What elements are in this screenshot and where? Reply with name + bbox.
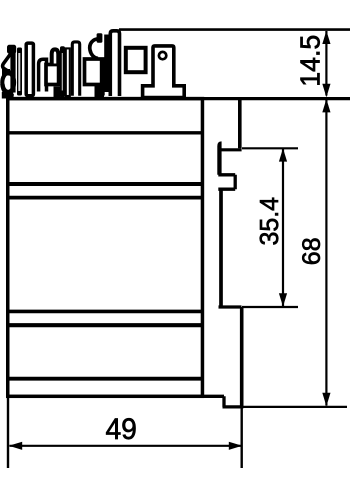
terminal 1: bottom sweep bbox=[2, 84, 13, 96]
DIN rail profile: claw tab bbox=[218, 175, 235, 189]
DIN rail profile: bottom foot step bbox=[201, 396, 243, 407]
terminal 6: dark double bar bbox=[60, 46, 65, 97]
DIN rail profile: upper right edge bbox=[238, 98, 242, 148]
svg-text:49: 49 bbox=[105, 413, 137, 446]
DIN rail profile: lower right edge bbox=[240, 307, 244, 407]
terminal 4: clamp block bbox=[46, 65, 59, 85]
terminal 12: bracket hole bbox=[159, 52, 166, 59]
extension line 49 left bbox=[7, 398, 9, 469]
dimension line 49 bbox=[10, 445, 242, 447]
terminal 1: dark bar bbox=[17, 48, 22, 96]
terminal 7a: narrow white bar bbox=[66, 48, 70, 96]
dimension line 14.5 bbox=[325, 31, 327, 96]
terminal 1: screw clamp head bbox=[7, 45, 16, 54]
terminal 9: tall bar bbox=[110, 31, 119, 96]
terminal 1: clamp lower ring bbox=[2, 73, 14, 92]
terminal 8: right edge strip bbox=[100, 58, 105, 96]
terminal 5: screw hump bbox=[52, 49, 59, 63]
terminal 9: dark strip left of tall bar bbox=[104, 35, 108, 93]
terminal 7b: white bar bbox=[72, 42, 79, 96]
terminal 8: foot bbox=[95, 84, 105, 97]
terminal 8: hook neck bbox=[97, 33, 103, 43]
body divider line 6 bbox=[8, 377, 203, 381]
terminal 11: small rectangle bbox=[126, 48, 146, 72]
body divider line 3 bbox=[8, 196, 203, 200]
dimension line 35.4 bbox=[282, 149, 284, 306]
terminal 3: block rounded top-left bbox=[39, 59, 47, 91]
relay body outline bbox=[8, 99, 203, 397]
terminal 12: mounting bracket bbox=[143, 46, 185, 98]
extension line 35.4 top bbox=[242, 147, 298, 149]
terminal 1: head stem bbox=[10, 52, 15, 93]
svg-text:35.4: 35.4 bbox=[254, 197, 284, 246]
body top line with extension to right bbox=[6, 97, 350, 100]
terminal 8: block bbox=[85, 59, 104, 85]
terminal 4: foot bbox=[54, 87, 61, 98]
DIN rail profile: lower left edge bbox=[219, 189, 223, 307]
terminal 8: wire hook bbox=[90, 39, 100, 59]
svg-text:68: 68 bbox=[298, 237, 326, 265]
svg-text:14.5: 14.5 bbox=[295, 35, 326, 87]
body divider line 2 bbox=[8, 182, 203, 186]
dimension line 68 bbox=[325, 100, 327, 406]
terminal 5: hump slope bbox=[59, 52, 63, 59]
terminal cover top line with extension (top of 14.5) bbox=[119, 28, 350, 31]
DIN rail profile: upper notch horizontal bbox=[221, 148, 242, 151]
DIN rail profile: lip hook bbox=[217, 141, 221, 174]
DIN rail profile: lower notch horizontal bbox=[219, 305, 242, 308]
extension line 68 bottom bbox=[243, 406, 347, 408]
terminal 1: clamp triangle loop bbox=[3, 54, 11, 73]
body divider line 1 bbox=[8, 131, 203, 134]
body divider line 4 bbox=[8, 310, 203, 314]
body divider line 5 bbox=[8, 323, 203, 327]
extension line 49 right bbox=[240, 407, 242, 468]
terminal 1: junction fill bbox=[2, 69, 10, 76]
terminal 2: vertical plate bbox=[26, 43, 33, 96]
extension line 35.4 bottom bbox=[242, 306, 298, 308]
